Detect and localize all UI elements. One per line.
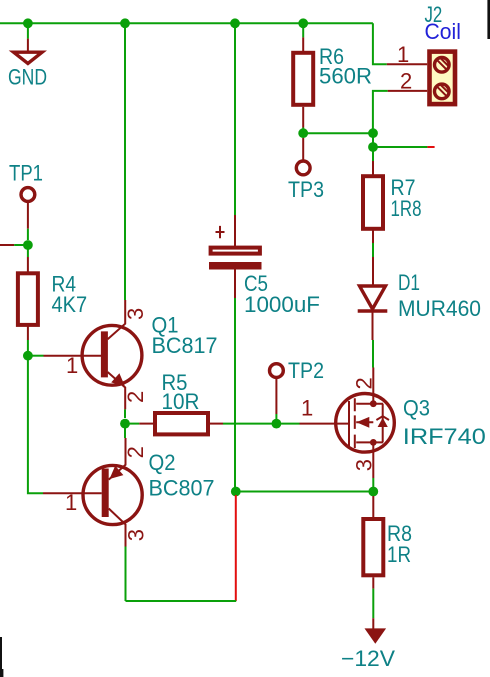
frame fragment bottom left (0, 637, 2, 677)
svg-text:2: 2 (123, 391, 148, 403)
wire R5 to gate (223, 423, 300, 425)
node junction Q1/Q2/R5 (120, 419, 130, 429)
svg-text:2: 2 (400, 69, 412, 94)
node junction Q1 collector column (120, 18, 130, 28)
svg-text:MUR460: MUR460 (398, 296, 481, 321)
wire C5 bottom (234, 298, 236, 424)
svg-text:10R: 10R (162, 389, 200, 414)
svg-text:1: 1 (65, 490, 77, 515)
wire C5 column lower (234, 424, 236, 492)
wire R6 bottom green (302, 128, 304, 134)
node junction Q3 source R8 (368, 487, 378, 497)
wire bottom rail (236, 491, 373, 493)
wire R7 top stub (372, 147, 374, 161)
wire right stub red tip (427, 146, 434, 148)
node junction R4/Q1 base (23, 351, 33, 361)
svg-text:TP2: TP2 (288, 358, 324, 383)
svg-text:1: 1 (397, 42, 409, 67)
wire between coil junctions (372, 133, 374, 147)
transistor Q2 BC807 (43, 438, 142, 547)
wire bottom horizontal (126, 600, 237, 602)
svg-text:TP1: TP1 (9, 160, 43, 185)
wire Q1 collector vertical (124, 23, 126, 300)
node junction R7 top (368, 142, 378, 152)
svg-text:TP3: TP3 (288, 177, 324, 202)
wire R8 bottom (372, 589, 374, 619)
wire R6 bottom to coil node (303, 132, 373, 134)
svg-text:−12V: −12V (341, 646, 395, 671)
wire node down to Q2 (124, 424, 126, 438)
wire R4 bottom (27, 340, 29, 351)
svg-text:3: 3 (123, 308, 148, 320)
wire D1 to Q3 (372, 340, 374, 368)
svg-text:2: 2 (123, 446, 148, 458)
node junction TP1/R4 (23, 240, 33, 250)
frame fragment top right (487, 0, 490, 39)
capacitor C5 (209, 215, 262, 298)
svg-text:Coil: Coil (425, 19, 461, 44)
wire J2 pin1 elbow (373, 23, 387, 64)
wire C5 top vertical (234, 23, 236, 215)
wire top bus GND net (0, 22, 373, 24)
testpoint TP3 (296, 138, 310, 175)
node junction GND stub (23, 18, 33, 28)
wire node to R5 (125, 423, 139, 425)
node junction C5 column (230, 18, 240, 28)
wire base stub (28, 355, 44, 357)
svg-text:1R: 1R (387, 542, 411, 567)
wire GND stub (27, 23, 29, 38)
svg-text:BC807: BC807 (149, 476, 215, 501)
wire Q3 source down (372, 454, 374, 478)
wire R6 top stub (302, 23, 304, 37)
wire left column down to Q2 (28, 356, 43, 494)
transistor Q3 IRF740 (300, 368, 395, 455)
wire left stub (14, 244, 24, 246)
svg-text:1: 1 (301, 396, 313, 421)
svg-text:Q2: Q2 (149, 450, 176, 475)
node junction R6 bottom (298, 128, 308, 138)
wire R7 to D1 (372, 243, 374, 257)
svg-text:1R8: 1R8 (391, 196, 422, 221)
wire Q2 collector down (125, 547, 127, 602)
wire J2 pin2 elbow (373, 91, 388, 132)
resistor R4 (18, 257, 38, 340)
svg-text:4K7: 4K7 (52, 292, 88, 317)
transistor Q1 BC817 (44, 300, 142, 409)
testpoint TP1 (21, 188, 35, 229)
wire right stub (373, 146, 427, 148)
pin stub left edge (0, 244, 14, 246)
svg-text:D1: D1 (398, 270, 420, 295)
power -12V symbol (365, 618, 387, 644)
resistor R8 (363, 496, 383, 589)
node junction R6 column (298, 18, 308, 28)
svg-text:560R: 560R (319, 64, 372, 89)
connector J2 (387, 52, 455, 105)
node junction TP2 (272, 419, 282, 429)
svg-text:GND: GND (8, 65, 47, 90)
svg-text:1: 1 (66, 353, 78, 378)
testpoint TP2 (270, 364, 284, 419)
diode D1 MUR460 (358, 257, 388, 340)
resistor R5 (139, 413, 223, 434)
svg-text:BC817: BC817 (152, 333, 218, 358)
resistor R7 (363, 161, 383, 243)
wire TP1 to node (27, 229, 29, 240)
resistor R6 (293, 37, 313, 127)
svg-text:IRF740: IRF740 (403, 424, 486, 449)
wire red return vertical (235, 495, 237, 601)
svg-text:3: 3 (124, 529, 149, 541)
svg-text:Q3: Q3 (403, 396, 430, 421)
node junction C5 bottom (231, 487, 241, 497)
ground GND symbol (14, 39, 42, 64)
svg-text:1000uF: 1000uF (244, 292, 320, 317)
wire Q1 emitter (124, 409, 126, 418)
node junction coil return (368, 128, 378, 138)
svg-text:2: 2 (352, 377, 377, 389)
wire node to R4 (27, 245, 29, 257)
